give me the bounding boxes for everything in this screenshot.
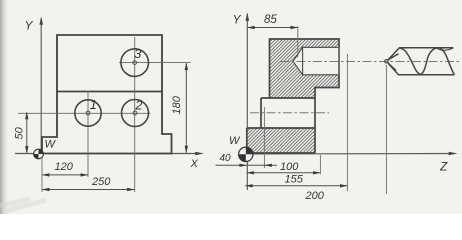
- svg-text:Z: Z: [439, 160, 448, 174]
- svg-text:85: 85: [264, 14, 277, 26]
- svg-text:2: 2: [134, 98, 143, 113]
- svg-text:250: 250: [91, 176, 111, 188]
- svg-text:100: 100: [280, 161, 299, 173]
- svg-text:50: 50: [14, 126, 26, 139]
- svg-text:W: W: [229, 135, 241, 147]
- svg-text:120: 120: [55, 161, 74, 173]
- svg-text:155: 155: [285, 174, 304, 186]
- svg-text:Y: Y: [25, 19, 34, 33]
- svg-text:X: X: [190, 158, 199, 170]
- svg-text:Y: Y: [233, 13, 242, 27]
- svg-text:1: 1: [90, 97, 97, 112]
- svg-text:40: 40: [220, 153, 232, 164]
- svg-text:180: 180: [171, 95, 183, 114]
- svg-text:3: 3: [134, 46, 142, 61]
- svg-text:W: W: [45, 139, 57, 151]
- svg-text:200: 200: [305, 190, 325, 202]
